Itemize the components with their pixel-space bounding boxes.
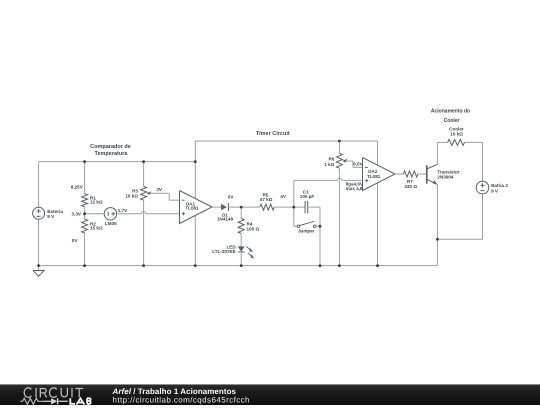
svg-text:Jumper: Jumper [298,228,315,233]
svg-text:TL081: TL081 [185,206,199,211]
svg-text:Temperatura: Temperatura [95,151,129,157]
svg-text:1,7V: 1,7V [118,208,128,213]
svg-text:TL081: TL081 [367,174,381,179]
svg-text:http://circuitlab.com/cqds645r: http://circuitlab.com/cqds645rcfcch [113,396,250,405]
svg-text:9 V: 9 V [491,188,499,193]
svg-text:47 kΩ: 47 kΩ [260,197,273,202]
svg-text:3,3V: 3,3V [72,211,82,216]
svg-text:LM35: LM35 [105,221,117,226]
svg-text:10 kΩ: 10 kΩ [450,131,463,136]
svg-text:1N4148: 1N4148 [217,217,234,222]
svg-text:2N3904: 2N3904 [437,174,454,179]
svg-text:Acionamento do: Acionamento do [431,108,470,114]
svg-text:5V: 5V [228,194,235,199]
svg-text:100 Ω: 100 Ω [247,227,260,232]
svg-text:Cooler: Cooler [444,118,460,124]
svg-text:10 kΩ: 10 kΩ [125,193,138,198]
svg-text:6,5V: 6,5V [353,162,363,167]
svg-text:Batria 2: Batria 2 [491,183,508,188]
svg-text:LTL-307EE: LTL-307EE [212,249,235,254]
svg-text:0V: 0V [72,238,79,243]
svg-text:12 kΩ: 12 kΩ [90,200,103,205]
svg-text:100 µF: 100 µF [300,194,315,199]
svg-text:9 V: 9 V [47,214,55,219]
svg-text:max 4,8: max 4,8 [346,186,363,191]
svg-text:8,25V: 8,25V [71,184,84,189]
svg-text:Timer Circuit: Timer Circuit [256,131,290,137]
svg-text:3V: 3V [156,187,163,192]
svg-text:15 kΩ: 15 kΩ [90,226,103,231]
svg-text:4V: 4V [280,194,287,199]
svg-text:330 Ω: 330 Ω [404,184,417,189]
svg-text:Arfel / Trabalho 1 Acionamento: Arfel / Trabalho 1 Acionamentos [112,387,237,396]
svg-text:1 kΩ: 1 kΩ [324,162,334,167]
svg-text:Comparador de: Comparador de [90,144,131,150]
